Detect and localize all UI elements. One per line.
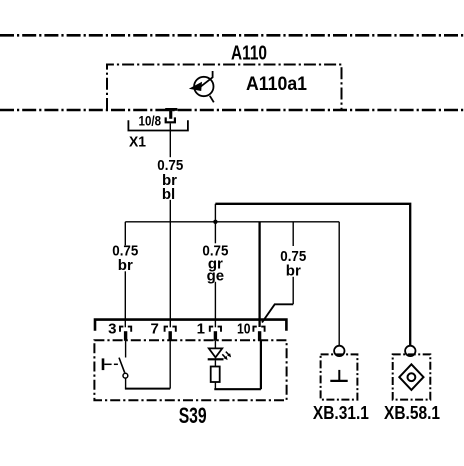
svg-text:10/8: 10/8 xyxy=(139,112,162,128)
svg-text:ge: ge xyxy=(207,267,225,284)
svg-text:3: 3 xyxy=(108,321,116,338)
svg-text:1: 1 xyxy=(197,321,205,338)
svg-text:XB.58.1: XB.58.1 xyxy=(384,403,440,423)
svg-text:X1: X1 xyxy=(129,134,146,151)
svg-text:10: 10 xyxy=(237,321,251,338)
svg-text:br: br xyxy=(118,257,133,274)
svg-text:XB.31.1: XB.31.1 xyxy=(313,403,369,423)
svg-text:S39: S39 xyxy=(179,403,207,428)
svg-text:A110: A110 xyxy=(231,43,267,65)
svg-text:A110a1: A110a1 xyxy=(246,74,307,95)
svg-text:7: 7 xyxy=(150,321,158,338)
svg-text:br: br xyxy=(286,263,301,280)
svg-text:bl: bl xyxy=(162,186,175,203)
